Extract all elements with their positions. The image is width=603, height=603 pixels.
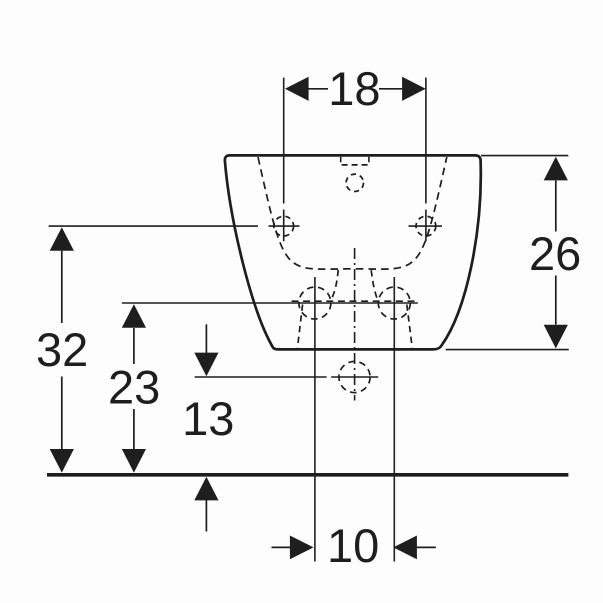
dimension 10 left arrowhead pointing right	[290, 536, 314, 560]
drain housing dashed leg left	[298, 305, 303, 348]
inner rim dashed U-curve	[258, 157, 447, 269]
svg-text:18: 18	[328, 62, 380, 115]
dimension line 32 vertical	[61, 251, 63, 449]
dimension 10 right shaft	[417, 546, 436, 548]
reference line through left fixing hole (dim 32)	[49, 225, 258, 227]
dimension 32 bottom arrowhead	[50, 449, 74, 473]
floor ground line	[47, 473, 568, 477]
left middle drain hole dashed circle	[299, 287, 331, 319]
dimension 18 right arrowhead	[402, 77, 426, 101]
left fixing hole centre-mark (horizontal)	[269, 225, 300, 227]
drain housing dashed leg right	[407, 305, 412, 348]
extension line left (dim 10) through left drain hole	[314, 277, 316, 562]
left fixing hole dashed circle	[274, 216, 294, 236]
waste outlet centre-mark (horizontal)	[331, 376, 378, 378]
funnel neck dashed curve left	[330, 270, 338, 302]
waste outlet dashed circle below bidet	[339, 361, 370, 392]
dimension line 18 shafts	[308, 88, 403, 90]
dimension 10 right arrowhead pointing left	[393, 536, 417, 560]
reference line bottom right (dim 26)	[446, 349, 569, 351]
dimension line 26 vertical	[555, 181, 557, 325]
svg-text:10: 10	[327, 519, 379, 572]
dimension 13 upper shaft	[205, 324, 207, 353]
reference line through middle holes (dim 23)	[122, 302, 418, 304]
svg-text:32: 32	[36, 323, 88, 376]
bidet outline (front view, wall-hung)	[225, 155, 481, 349]
extension line right hole vertical (dim 18)	[425, 78, 427, 242]
dimension 23 bottom arrowhead	[122, 449, 146, 473]
dimension 32 top arrowhead	[50, 227, 74, 251]
drain flange dashed horizontal line	[292, 300, 417, 302]
svg-text:26: 26	[529, 227, 581, 280]
dimension 13 lower shaft below floor	[205, 500, 207, 532]
dimension line 23 vertical	[133, 328, 135, 449]
dimension 13 down arrowhead	[194, 353, 218, 377]
dimension 18 left arrowhead	[285, 77, 309, 101]
dashed notch at top center	[341, 157, 369, 162]
funnel neck dashed curve right	[371, 270, 378, 302]
extension line right (dim 10) through right drain hole	[393, 277, 395, 562]
reference line top right (dim 26)	[481, 155, 568, 157]
extension line left hole vertical (dim 18)	[283, 78, 285, 242]
tap hole dashed circle	[346, 174, 363, 191]
svg-text:23: 23	[108, 360, 160, 413]
reference line through waste outlet (dim 13)	[195, 376, 327, 378]
right fixing hole centre-mark (horizontal)	[409, 225, 443, 227]
right middle drain hole dashed circle	[378, 287, 410, 319]
dimension 23 top arrowhead	[122, 304, 146, 328]
dimension 10 left shaft	[272, 546, 291, 548]
central axis dash-dot line	[354, 248, 356, 401]
svg-text:13: 13	[182, 392, 234, 445]
dimension 26 bottom arrowhead	[544, 325, 568, 349]
dimension 13 up arrowhead below floor	[194, 477, 218, 501]
dimension 26 top arrowhead	[544, 157, 568, 181]
right fixing hole dashed circle	[416, 216, 436, 236]
